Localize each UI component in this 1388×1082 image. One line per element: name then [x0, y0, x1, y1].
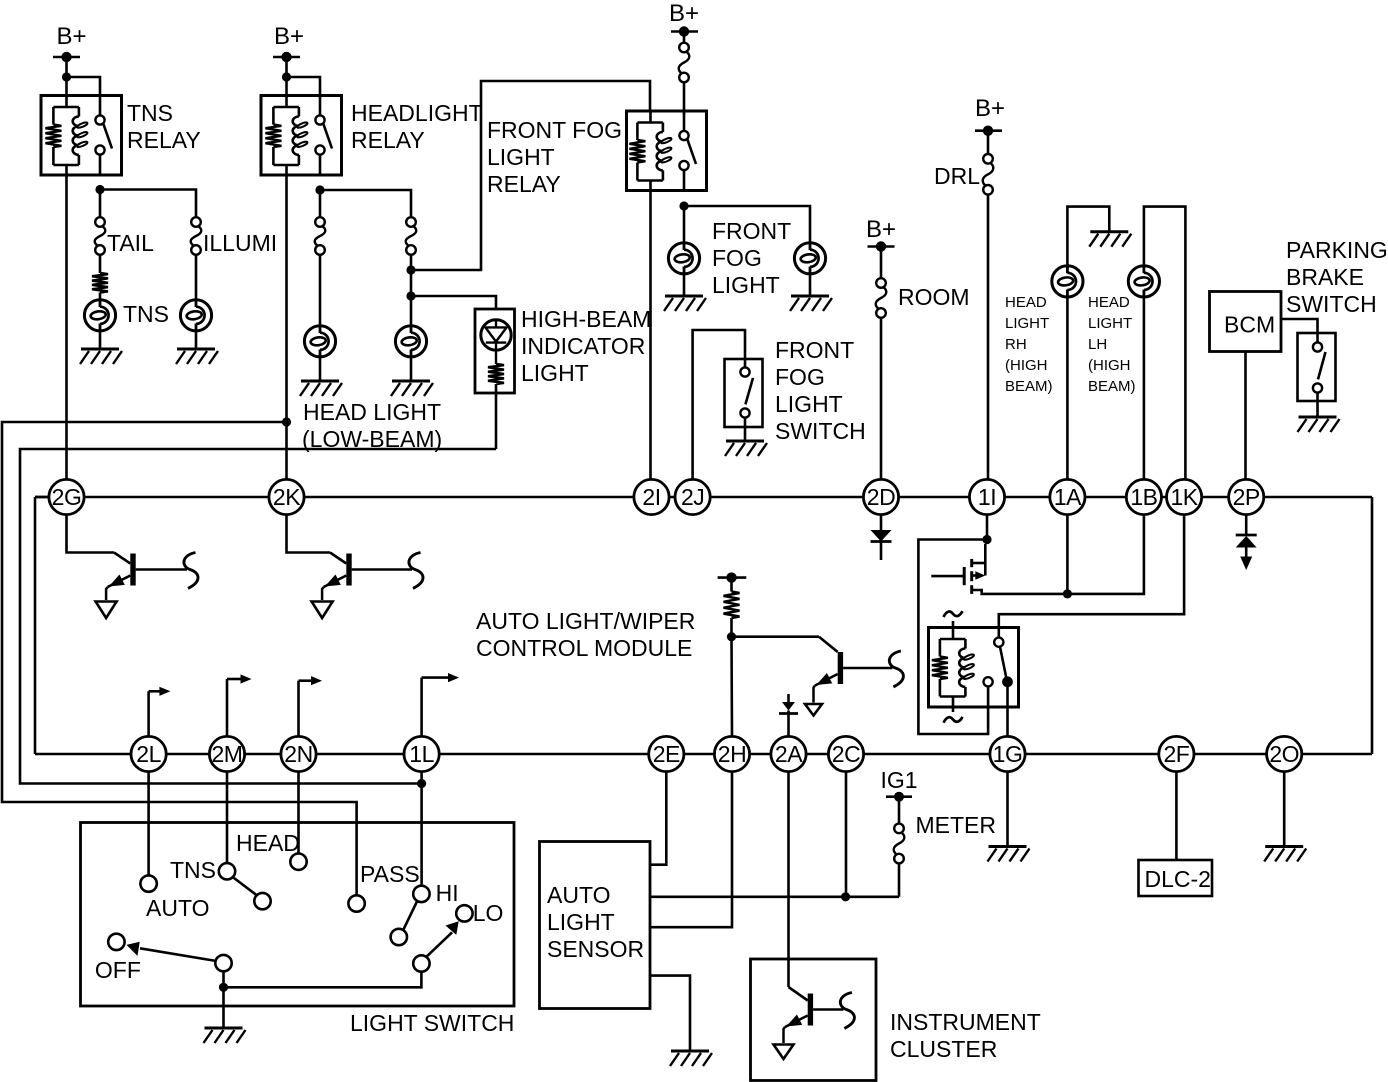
contact LO arm pivot — [413, 955, 429, 971]
fuse front fog — [679, 43, 690, 83]
wire 2J up to fog switch — [693, 330, 745, 479]
transistor Q4 below 2K — [312, 553, 423, 619]
junction dot below TNS relay switch — [95, 185, 104, 194]
label DRL — [934, 163, 980, 189]
junction dot 2C node — [841, 892, 850, 901]
wire into Q1 base — [819, 637, 838, 652]
wire right low-beam lamp to ground — [410, 357, 413, 381]
connector 2C — [828, 736, 863, 771]
headlight relay coil with parallel resistor — [265, 96, 308, 176]
wire left fuse to left low-beam lamp — [319, 255, 322, 326]
label HIGH-BEAM INDICATOR LIGHT — [521, 306, 651, 386]
junction dot at 1L branch — [417, 779, 426, 788]
wire branch to TNS relay switch — [67, 77, 101, 96]
ground below sensor — [670, 1051, 712, 1066]
svg-text:LIGHT: LIGHT — [487, 144, 555, 170]
wire base node to transistor Q1 — [732, 635, 820, 638]
connector 2O — [1267, 736, 1302, 771]
junction dot base node — [727, 632, 736, 641]
connector 1A — [1050, 479, 1085, 514]
wire 2K down to transistor — [287, 515, 331, 553]
svg-text:1G: 1G — [993, 741, 1023, 767]
module AUTO LIGHT SENSOR box — [540, 842, 651, 1009]
svg-text:RH: RH — [1005, 336, 1027, 353]
svg-text:IG1: IG1 — [880, 767, 917, 793]
switch arm HI — [403, 901, 417, 930]
svg-text:2D: 2D — [867, 484, 895, 510]
DRL relay switch common contact dot — [1002, 676, 1013, 687]
wire into Q3 base — [114, 553, 130, 564]
wire high-beam indicator to 1L (left frame) — [20, 449, 496, 784]
contact PASS — [348, 895, 364, 911]
junction dot below 1I — [982, 535, 991, 544]
svg-text:HEAD: HEAD — [236, 830, 300, 856]
wire sensor to IG1 node — [650, 895, 899, 898]
svg-text:AUTO: AUTO — [547, 882, 610, 908]
wire 2E down to sensor — [650, 772, 666, 865]
connector 2D — [863, 479, 898, 514]
svg-text:B+: B+ — [274, 23, 304, 50]
svg-text:2I: 2I — [642, 484, 660, 510]
svg-text:BEAM): BEAM) — [1088, 378, 1136, 395]
svg-text:INDICATOR: INDICATOR — [521, 333, 645, 359]
arrow output above 2L — [149, 687, 171, 737]
front fog relay coil with parallel resistor — [629, 111, 672, 191]
ground below ILLUMI lamp — [176, 349, 218, 364]
svg-text:ILLUMI: ILLUMI — [203, 230, 277, 256]
svg-text:SWITCH: SWITCH — [775, 418, 866, 444]
svg-text:(HIGH: (HIGH — [1005, 357, 1048, 374]
wire to right low-beam fuse — [320, 190, 411, 217]
wire 2F down to DLC-2 — [1175, 772, 1178, 860]
relay TNS RELAY box — [41, 96, 122, 176]
wire BCM to parking brake switch — [1281, 319, 1318, 333]
switch arm LO with arrow — [427, 921, 459, 956]
svg-text:HEAD LIGHT: HEAD LIGHT — [303, 399, 441, 425]
connector 2A — [771, 736, 806, 771]
svg-text:SENSOR: SENSOR — [547, 936, 644, 962]
svg-text:BCM: BCM — [1224, 312, 1275, 338]
svg-text:B+: B+ — [669, 0, 699, 27]
wire common to LO pivot — [224, 972, 422, 988]
wire B+ to ROOM fuse — [880, 250, 883, 278]
wire B+ down to headlight relay — [285, 57, 288, 96]
contact OFF arm pivot — [215, 955, 231, 971]
svg-text:LO: LO — [473, 900, 504, 926]
lamp TNS — [84, 300, 115, 331]
label TNS RELAY — [127, 100, 201, 153]
svg-text:OFF: OFF — [95, 957, 141, 983]
wire LH high-beam lamp down to 1B — [1143, 297, 1146, 480]
label AUTO LIGHT SENSOR — [547, 882, 644, 962]
connector 2P — [1229, 479, 1264, 514]
contact TNS arm pivot — [254, 893, 270, 909]
svg-text:LIGHT: LIGHT — [712, 272, 780, 298]
svg-text:CONTROL MODULE: CONTROL MODULE — [476, 635, 692, 661]
diode below 2P — [1236, 515, 1257, 570]
wire break to DRL coil — [952, 621, 955, 639]
junction dot fog-relay feed — [406, 265, 415, 274]
wire node to 1B — [1067, 515, 1144, 594]
wire 1G down to ground — [1006, 772, 1009, 846]
arrow output above 2M — [227, 674, 252, 736]
lamp HEAD LIGHT low-beam left — [304, 326, 335, 357]
TNS relay coil with parallel resistor — [45, 96, 88, 176]
relay DRL relay box — [929, 628, 1019, 708]
wire 2N down to HEAD contact — [297, 772, 300, 854]
wire fog fuse to relay switch — [683, 82, 686, 115]
module DLC-2 box — [1139, 860, 1213, 896]
svg-text:2G: 2G — [52, 484, 82, 510]
svg-text:HEAD: HEAD — [1088, 294, 1130, 311]
svg-text:TAIL: TAIL — [107, 230, 154, 256]
ground below 1G — [988, 847, 1030, 862]
svg-text:LIGHT: LIGHT — [1088, 315, 1132, 332]
label FRONT FOG LIGHT SWITCH — [775, 337, 866, 444]
LED indicator bulb symbol — [481, 320, 511, 364]
label HEAD LIGHT LH (HIGH BEAM) — [1088, 294, 1136, 395]
connector 1K — [1167, 479, 1202, 514]
fuse ILLUMI — [191, 217, 202, 255]
arrow output above 2N — [299, 676, 323, 736]
wire 2P row to right frame — [0, 0, 1, 1]
front fog relay switch contacts — [679, 111, 696, 191]
label LO — [473, 900, 504, 926]
fog switch contacts — [740, 359, 753, 441]
svg-text:1L: 1L — [409, 741, 434, 767]
label FRONT FOG LIGHT RELAY — [487, 117, 622, 197]
wire B+ to DRL fuse — [987, 135, 990, 154]
resistor of high-beam indicator — [488, 364, 504, 384]
wire OFF pivot to ground node — [222, 971, 225, 987]
label ROOM — [898, 284, 970, 310]
svg-text:B+: B+ — [866, 216, 896, 243]
svg-text:LIGHT SWITCH: LIGHT SWITCH — [350, 1010, 514, 1036]
break mark above DRL relay coil — [944, 611, 963, 617]
wire BCM down to 2P — [1244, 352, 1247, 480]
power B+ terminal (TNS relay feed) — [53, 23, 87, 62]
label HEADLIGHT RELAY — [351, 100, 483, 153]
svg-text:LIGHT: LIGHT — [775, 391, 843, 417]
ground above RH headlight — [1089, 232, 1131, 247]
svg-text:2K: 2K — [273, 484, 301, 510]
svg-text:INSTRUMENT: INSTRUMENT — [890, 1009, 1041, 1035]
lamp HEAD LIGHT LH (HIGH BEAM) — [1128, 266, 1159, 297]
label TAIL — [107, 230, 154, 256]
wire base node down to 2H — [730, 637, 733, 737]
break mark below DRL relay coil — [944, 717, 963, 723]
junction dot below fog relay switch — [679, 201, 688, 210]
svg-text:ROOM: ROOM — [898, 284, 970, 310]
svg-text:TNS: TNS — [127, 100, 173, 126]
svg-text:(HIGH: (HIGH — [1088, 357, 1131, 374]
power B+ terminal (headlight relay feed) — [273, 23, 304, 62]
wire into Q4 base — [330, 553, 346, 564]
connector 1L — [404, 736, 439, 771]
wire DRL relay common down to 1G — [1006, 682, 1009, 737]
wire fog switch to left fog lamp — [683, 210, 686, 243]
svg-text:HIGH-BEAM: HIGH-BEAM — [521, 306, 651, 332]
wire 2H down to sensor — [650, 772, 732, 928]
label INSTRUMENT CLUSTER — [890, 1009, 1041, 1062]
wire 2G to left frame — [35, 496, 49, 499]
ground below left fog lamp — [664, 296, 706, 311]
contact AUTO — [140, 875, 156, 891]
svg-text:FOG: FOG — [775, 364, 825, 390]
svg-text:B+: B+ — [56, 23, 86, 50]
contact LO — [456, 905, 472, 921]
power IG1 terminal — [880, 767, 917, 802]
svg-text:PARKING: PARKING — [1286, 237, 1388, 263]
power B+ terminal (front fog relay) — [669, 0, 699, 37]
diode on 2A line — [779, 694, 798, 736]
contact HEAD — [290, 854, 306, 870]
contact TNS — [219, 863, 235, 879]
junction dot high-beam-indicator feed — [406, 291, 415, 300]
headlight relay switch contacts — [315, 96, 332, 176]
label AUTO — [146, 895, 209, 921]
wire indicator resistor to box bottom — [495, 384, 498, 449]
wire low-beam node to PASS contact (left frame) — [2, 422, 357, 895]
wire ILLUMI lamp to ground — [195, 331, 198, 349]
svg-text:PASS: PASS — [360, 861, 420, 887]
wire rail to pull-up resistor — [730, 581, 733, 592]
junction dot B+ branch 2 — [282, 72, 291, 81]
fuse TAIL — [95, 217, 106, 255]
ground below 2O — [1264, 847, 1306, 862]
svg-text:1I: 1I — [978, 484, 996, 510]
lamp FRONT FOG LIGHT left — [668, 243, 699, 274]
label DLC-2 — [1145, 866, 1211, 892]
connector 1G — [990, 736, 1025, 771]
label BCM — [1224, 312, 1275, 338]
wire 1I down to junction — [986, 515, 989, 540]
label HEAD — [236, 830, 300, 856]
diode below 2D — [871, 515, 892, 560]
svg-text:AUTO: AUTO — [146, 895, 209, 921]
wire DRL fuse down to 1I — [987, 194, 990, 479]
wire MOSFET drain — [984, 544, 987, 576]
label TNS lamp — [123, 301, 169, 327]
wire 2A down to instrument cluster — [787, 772, 790, 987]
svg-text:FRONT FOG: FRONT FOG — [487, 117, 622, 143]
wire LH high-beam lamp top to 1K — [1144, 207, 1186, 480]
module LIGHT SWITCH box — [81, 823, 515, 1007]
svg-text:TNS: TNS — [123, 301, 169, 327]
svg-text:1K: 1K — [1171, 484, 1199, 510]
TNS relay switch contacts — [95, 96, 112, 176]
svg-text:2E: 2E — [653, 741, 680, 767]
svg-text:2A: 2A — [775, 741, 803, 767]
svg-text:B+: B+ — [975, 95, 1005, 122]
wire left low-beam lamp to ground — [319, 357, 322, 381]
wire resistor to base node — [730, 618, 733, 637]
contact OFF — [108, 934, 124, 950]
connector 1B — [1126, 479, 1161, 514]
ground below right low-beam lamp — [391, 381, 433, 396]
wire B+ to fog fuse — [683, 35, 686, 43]
wire ILLUMI fuse to lamp — [195, 255, 198, 300]
module BCM box — [1210, 292, 1282, 352]
wire 2L down to AUTO contact — [147, 772, 150, 876]
component HIGH-BEAM INDICATOR LIGHT box — [475, 309, 515, 393]
wire ROOM fuse down to 2D — [880, 318, 883, 480]
label HEAD LIGHT (LOW-BEAM) — [302, 399, 442, 452]
fuse DRL — [983, 154, 994, 195]
connector 2K — [269, 479, 304, 514]
svg-text:FRONT: FRONT — [712, 218, 791, 244]
wire TNS switch to TAIL fuse — [99, 194, 102, 217]
svg-text:TNS: TNS — [170, 857, 216, 883]
ground below right fog lamp — [790, 296, 832, 311]
wire right fuse to right low-beam lamp — [410, 255, 413, 326]
wire left fog lamp to ground — [683, 274, 686, 296]
svg-text:2J: 2J — [681, 484, 704, 510]
wire RH high-beam lamp to ground — [1067, 207, 1109, 267]
component FRONT FOG LIGHT SWITCH box — [725, 359, 763, 427]
svg-text:FOG: FOG — [712, 245, 762, 271]
connector 2J — [675, 479, 710, 514]
wire 2A to transistor Q2 base — [789, 987, 808, 1001]
wire sensor to ground — [650, 976, 690, 1051]
svg-text:BEAM): BEAM) — [1005, 378, 1053, 395]
wire 1A down to node — [1066, 515, 1069, 594]
ground below light switch — [204, 1028, 246, 1043]
svg-text:HEADLIGHT: HEADLIGHT — [351, 100, 483, 126]
label FRONT FOG LIGHT — [712, 218, 791, 298]
lamp ILLUMI — [180, 300, 211, 331]
svg-text:1A: 1A — [1054, 484, 1082, 510]
svg-text:DLC-2: DLC-2 — [1145, 866, 1211, 892]
svg-text:BRAKE: BRAKE — [1286, 264, 1364, 290]
connector 2H — [714, 736, 749, 771]
junction dot 1A node — [1063, 589, 1072, 598]
wire TNS lamp to ground — [99, 331, 102, 349]
fuse ROOM — [876, 278, 887, 318]
label HI — [436, 880, 459, 906]
fuse headlight right — [406, 217, 417, 255]
svg-text:RELAY: RELAY — [127, 127, 201, 153]
label TNS switch — [170, 857, 216, 883]
module INSTRUMENT CLUSTER box — [751, 959, 877, 1081]
svg-text:2N: 2N — [284, 741, 312, 767]
transistor Q2 in instrument cluster — [774, 993, 855, 1060]
lamp HEAD LIGHT RH (HIGH BEAM) — [1052, 266, 1083, 297]
svg-text:LIGHT: LIGHT — [547, 909, 615, 935]
wire resistor to TNS lamp — [99, 293, 102, 301]
connector 2L — [131, 736, 166, 771]
connector 2I — [634, 479, 669, 514]
wire 2G down to transistor — [67, 515, 115, 553]
arrow output above 1L — [422, 673, 459, 736]
connector 2F — [1159, 736, 1194, 771]
lamp HEAD LIGHT low-beam right — [395, 326, 426, 357]
svg-text:1B: 1B — [1130, 484, 1157, 510]
label OFF — [95, 957, 141, 983]
fuse headlight left — [315, 217, 326, 255]
connector 2N — [281, 736, 316, 771]
wire RH high-beam lamp down to 1A — [1066, 297, 1069, 480]
svg-text:RELAY: RELAY — [351, 127, 425, 153]
relay DRL coil with parallel resistor — [932, 639, 975, 712]
wire 1I around to DRL relay contact — [918, 540, 988, 735]
switch arm TNS — [233, 877, 257, 895]
wire fog relay feed up-over — [411, 81, 650, 270]
wire right fog lamp to ground — [809, 274, 812, 296]
contact HI arm pivot — [391, 929, 407, 945]
svg-text:AUTO LIGHT/WIPER: AUTO LIGHT/WIPER — [476, 608, 695, 634]
wire to high-beam indicator — [411, 296, 496, 309]
DRL relay switch contact NO — [994, 638, 1006, 678]
svg-text:SWITCH: SWITCH — [1286, 291, 1377, 317]
svg-text:FRONT: FRONT — [775, 337, 854, 363]
contact HI — [413, 886, 429, 902]
svg-text:LH: LH — [1088, 336, 1107, 353]
label HEAD LIGHT RH (HIGH BEAM) — [1005, 294, 1053, 395]
label LIGHT SWITCH — [350, 1010, 514, 1036]
svg-text:2H: 2H — [718, 741, 746, 767]
relay FRONT FOG LIGHT RELAY box — [627, 111, 707, 191]
svg-text:2M: 2M — [212, 741, 243, 767]
svg-text:2O: 2O — [1269, 741, 1299, 767]
switch arm OFF with arrow — [127, 942, 216, 961]
junction dot below headlight relay switch — [315, 185, 324, 194]
wire branch to headlight relay switch — [287, 77, 321, 96]
svg-text:METER: METER — [916, 812, 997, 838]
transistor Q-DRL p-channel MOSFET — [931, 559, 1066, 594]
label PARKING BRAKE SWITCH — [1286, 237, 1388, 317]
connector 2G — [49, 479, 84, 514]
connector 2E — [649, 736, 684, 771]
wire 1L down to HI contact — [420, 772, 423, 886]
wire headlight switch to left fuse — [319, 194, 322, 217]
power B+ terminal (ROOM) — [866, 216, 896, 252]
svg-text:2F: 2F — [1163, 741, 1189, 767]
label METER — [916, 812, 997, 838]
junction dot B+ branch — [62, 72, 71, 81]
wire right frame — [1371, 497, 1374, 754]
component parking brake switch box — [1298, 333, 1336, 401]
svg-text:2C: 2C — [832, 741, 860, 767]
svg-text:2L: 2L — [136, 741, 161, 767]
svg-text:LIGHT: LIGHT — [1005, 315, 1049, 332]
wire 2M down to TNS contact — [226, 772, 229, 864]
svg-text:HEAD: HEAD — [1005, 294, 1047, 311]
wire 2O down to ground — [1283, 772, 1286, 846]
wire left frame down to row 2 — [34, 497, 37, 754]
transistor Q1 in control module — [805, 651, 903, 716]
wire 2C down to node — [845, 772, 848, 897]
wire 1K down to DRL relay — [999, 515, 1184, 638]
svg-text:DRL: DRL — [934, 163, 980, 189]
transistor Q3 below 2G — [96, 553, 198, 619]
label PASS — [360, 861, 420, 887]
svg-text:LIGHT: LIGHT — [521, 360, 589, 386]
parking brake switch contacts — [1313, 333, 1326, 417]
label ILLUMI — [203, 230, 277, 256]
wire TAIL fuse to resistor — [99, 255, 102, 273]
connector 1I — [969, 479, 1004, 514]
ground below left low-beam lamp — [300, 381, 342, 396]
label AUTO LIGHT/WIPER CONTROL MODULE — [476, 608, 695, 661]
svg-text:CLUSTER: CLUSTER — [890, 1036, 997, 1062]
fuse METER — [894, 824, 905, 864]
svg-text:RELAY: RELAY — [487, 171, 561, 197]
wire headlight relay coil down to 2K — [285, 175, 288, 479]
DRL relay switch contact NC open — [984, 677, 993, 686]
svg-text:2P: 2P — [1233, 484, 1260, 510]
wire connector row 1 bus — [35, 496, 1372, 499]
